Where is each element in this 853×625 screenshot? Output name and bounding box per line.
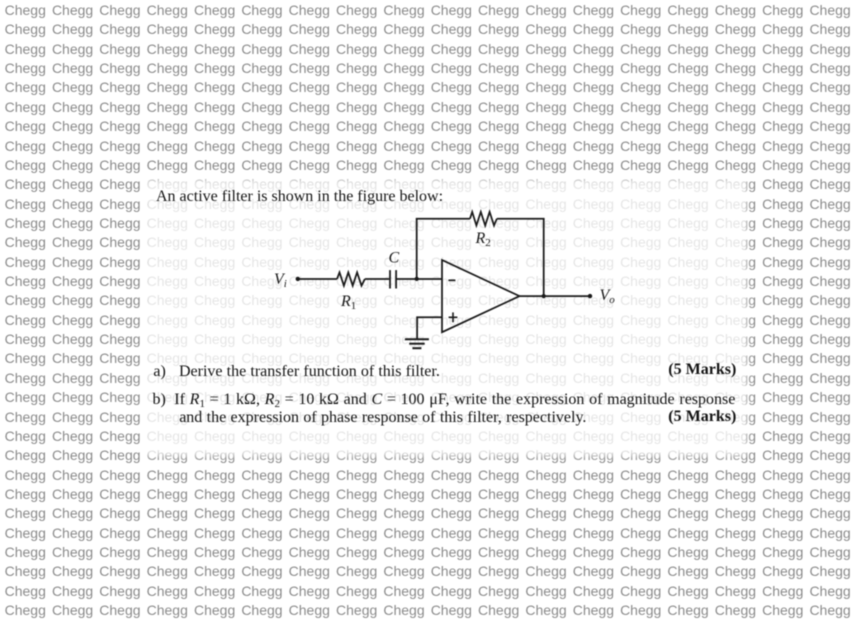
wire junction to inverting input <box>417 278 442 280</box>
wire feedback down to output node <box>543 219 545 296</box>
svg-text:R1: R1 <box>340 293 356 312</box>
capacitor C <box>390 270 396 288</box>
wire op-amp output to Vo <box>520 295 591 297</box>
output node junction dot <box>542 294 546 298</box>
wire C to junction <box>396 278 417 280</box>
op-amp plus sign <box>449 312 458 322</box>
node Vi terminal dot <box>296 277 300 281</box>
wire noninverting input <box>417 317 442 339</box>
junction node dot <box>415 277 419 281</box>
wire junction up to feedback <box>416 219 418 279</box>
wire R1 to C <box>365 278 389 280</box>
op-amp U1 <box>442 260 520 332</box>
resistor R1 <box>337 272 365 285</box>
op-amp minus sign <box>448 279 455 281</box>
wire feedback right segment <box>497 218 545 220</box>
svg-text:C: C <box>389 250 400 267</box>
node Vo terminal dot <box>588 294 592 298</box>
wire feedback left segment <box>416 218 470 220</box>
resistor R2 <box>470 212 497 226</box>
wire Vi to R1 <box>298 278 337 280</box>
svg-text:Vi: Vi <box>274 271 287 290</box>
svg-text:Vo: Vo <box>600 287 616 306</box>
svg-text:R2: R2 <box>475 230 491 249</box>
ground <box>405 339 429 348</box>
